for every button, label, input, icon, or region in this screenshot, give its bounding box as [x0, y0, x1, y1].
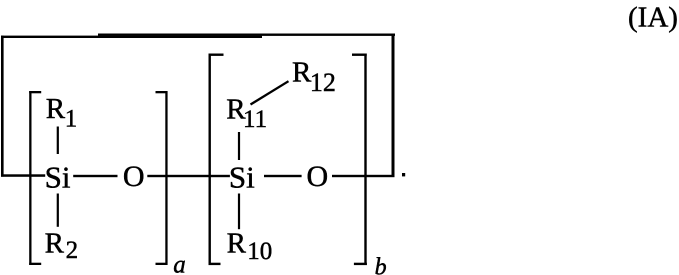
wire left stub bond to Si1	[1, 174, 45, 177]
bracket 2 right top foot	[352, 54, 367, 56]
svg-text:1: 1	[65, 106, 78, 133]
bracket 2 right bottom foot	[354, 263, 367, 265]
svg-text:Si: Si	[229, 160, 255, 195]
diagonal bond R11 to R12	[251, 81, 289, 104]
bond O2 to chain end	[332, 175, 395, 177]
bracket 1 right bottom foot	[156, 263, 168, 265]
wire chain top horizontal segment A	[1, 36, 262, 38]
svg-text:R: R	[46, 93, 66, 125]
wire chain right vertical	[392, 34, 395, 177]
svg-text:(IA): (IA)	[628, 2, 678, 34]
bond R1 to Si1	[57, 127, 59, 155]
svg-text:R: R	[45, 227, 65, 259]
bracket 2 left bottom foot	[209, 263, 221, 265]
bracket 2 left vertical	[209, 54, 211, 266]
svg-text:12: 12	[310, 68, 336, 97]
bracket 2 right vertical	[364, 54, 366, 266]
svg-text:a: a	[173, 251, 186, 275]
svg-text:O: O	[307, 160, 329, 193]
svg-text:11: 11	[243, 106, 267, 133]
svg-text:2: 2	[66, 237, 79, 264]
svg-text:Si: Si	[45, 160, 71, 195]
bond R11 to Si2	[238, 132, 240, 160]
bracket 1 right top foot	[156, 91, 168, 93]
bracket 1 left top foot	[29, 91, 41, 93]
bond Si1 to R2	[57, 194, 59, 227]
bond Si2 to O2	[264, 175, 302, 177]
svg-text:b: b	[375, 255, 387, 275]
wire chain top horizontal segment B	[98, 34, 395, 36]
bracket 1 left bottom foot	[29, 263, 41, 265]
bracket 1 right vertical	[165, 91, 167, 265]
bracket 2 left top foot	[209, 54, 224, 56]
svg-text:O: O	[123, 160, 145, 193]
bond O1 to Si2	[147, 175, 230, 177]
wire chain left vertical	[1, 36, 4, 177]
svg-text:10: 10	[247, 238, 272, 265]
bond Si1 to O1	[73, 175, 117, 177]
bracket 1 left vertical	[29, 91, 31, 265]
svg-text:R: R	[227, 227, 247, 259]
bond Si2 to R10	[238, 194, 240, 230]
period after formula	[402, 173, 405, 176]
